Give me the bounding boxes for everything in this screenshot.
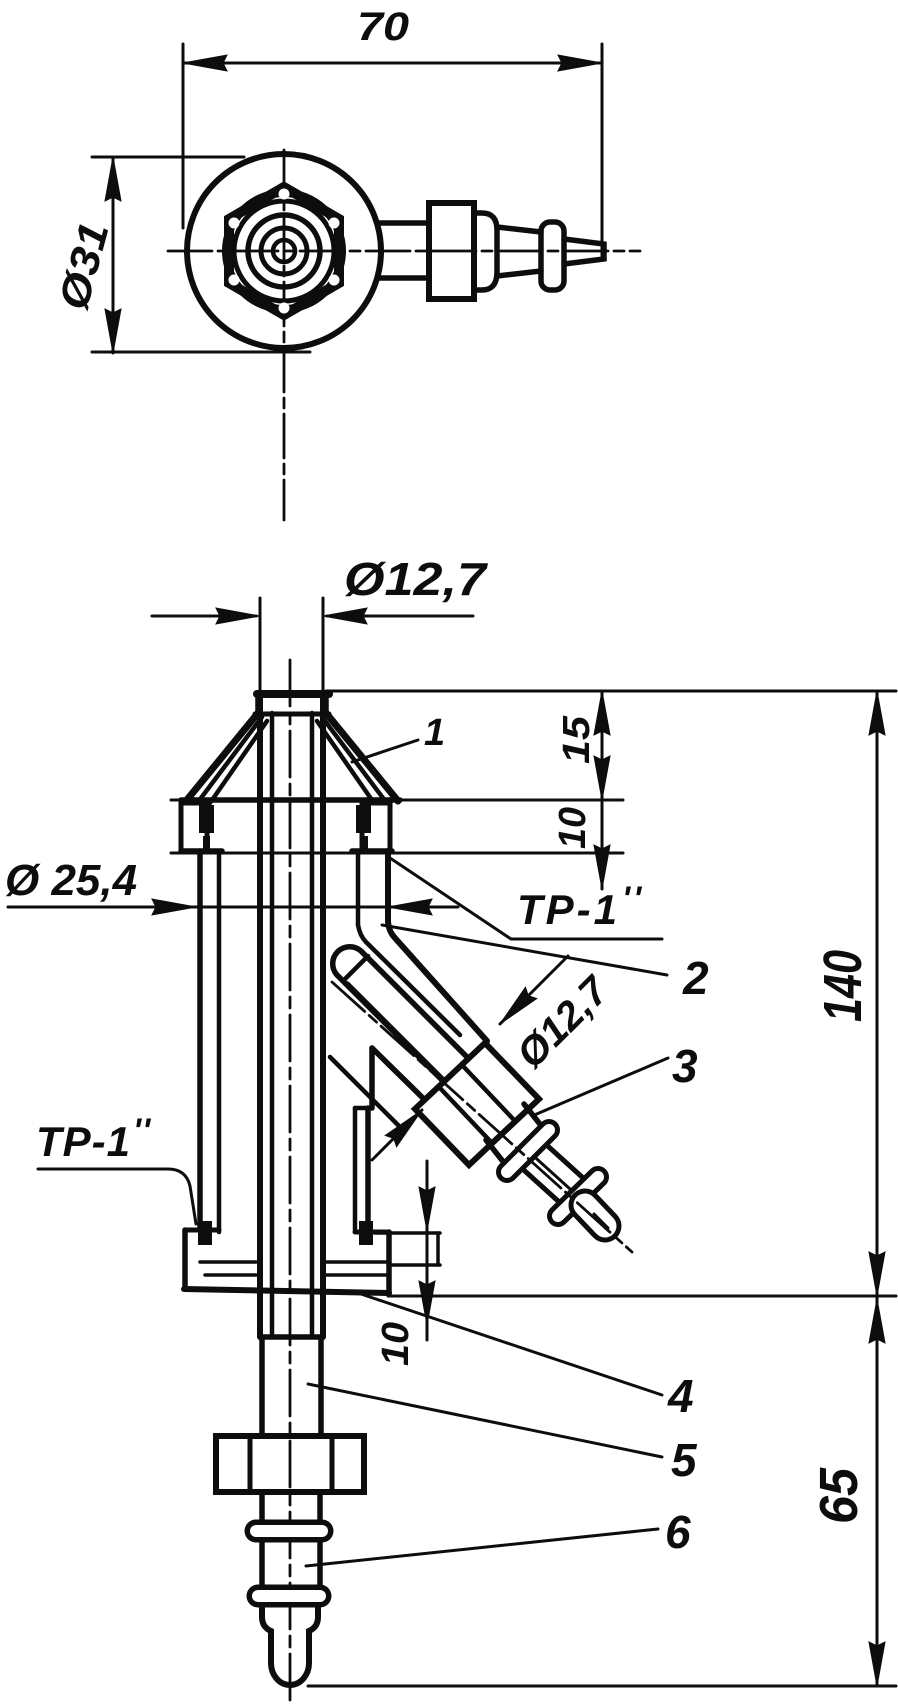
- extension long line y1296: [388, 1295, 896, 1298]
- svg-text:Ø12,7: Ø12,7: [344, 553, 489, 605]
- svg-text:1: 1: [424, 712, 445, 754]
- cone outer left: [186, 713, 258, 801]
- branch rib 1: [507, 1130, 549, 1172]
- side fitting stem: [378, 220, 429, 226]
- branch inner pipe capsule: [333, 947, 486, 1100]
- body outer wall right lower: [365, 1108, 371, 1232]
- corner notches: [229, 189, 340, 314]
- svg-text:10: 10: [552, 807, 594, 849]
- dimension D31 line: [112, 157, 115, 353]
- step right vertical: [436, 1233, 440, 1265]
- branch shaft mid line: [528, 1151, 580, 1198]
- rib 2 bottom: [258, 1585, 320, 1608]
- thread mark left top: [200, 806, 213, 832]
- dimension D12,7 line right: [327, 615, 473, 618]
- svg-text:15: 15: [556, 715, 598, 764]
- branch pipe inner line: [348, 983, 450, 1085]
- bottom flange top line right: [355, 1230, 389, 1235]
- extension line y853: [171, 852, 623, 855]
- branch outer wall upper: [388, 922, 487, 1041]
- label 5 leader: [308, 1384, 662, 1457]
- bottom tip: [262, 1608, 318, 1685]
- branch bore wall upper: [358, 925, 460, 1035]
- branch dim arrow lower: [372, 1110, 422, 1160]
- thread mark right top: [357, 806, 370, 832]
- bottom extension line: [308, 1685, 896, 1688]
- side fitting nut: [429, 203, 474, 299]
- shaft between ribs: [259, 1543, 265, 1588]
- bottom flange inner line 1275: [205, 1273, 256, 1277]
- branch shaft: [540, 1139, 592, 1186]
- cone outer right: [326, 713, 398, 801]
- top view vertical centerline: [283, 150, 286, 520]
- bottom flange right outer: [386, 1232, 392, 1294]
- flange bottom thick right: [352, 848, 392, 854]
- branch bore wall lower: [330, 1057, 402, 1129]
- dimension 65 line: [876, 1296, 879, 1686]
- inner circle 36: [248, 215, 320, 287]
- body inner wall left: [217, 851, 222, 1232]
- svg-text:2: 2: [682, 952, 709, 1004]
- branch nut facet lines: [462, 1065, 515, 1121]
- top view outer circle: [187, 154, 381, 348]
- side fitting taper: [497, 227, 541, 232]
- svg-text:70: 70: [357, 5, 409, 49]
- dimension D25,4 line: [8, 906, 458, 909]
- body inner wall right upper: [356, 851, 361, 925]
- dimension 15-10 line: [601, 691, 604, 889]
- extension line y1233: [375, 1231, 440, 1235]
- hex inscribed circle: [226, 193, 342, 309]
- hex nut outline: [229, 187, 339, 315]
- hex nut bottom: [216, 1436, 364, 1492]
- hex nut facet lines: [248, 1436, 253, 1492]
- body outer wall right upper: [385, 851, 391, 922]
- label 4 leader: [358, 1293, 662, 1395]
- extension line y1265: [389, 1263, 440, 1267]
- pipe bore walls: [270, 713, 275, 1337]
- dimension D12,7 line left: [152, 615, 256, 618]
- extension line top of D31: [92, 156, 244, 159]
- branch tip capsule: [585, 1205, 605, 1226]
- washer circle: [234, 201, 334, 301]
- cap top: [257, 690, 329, 698]
- extension line y800: [171, 799, 623, 802]
- svg-text:3: 3: [672, 1040, 698, 1092]
- dimension 140 line: [876, 691, 879, 1296]
- branch lower outer wall: [372, 1048, 428, 1103]
- branch nut: [415, 1043, 539, 1165]
- bottom flange bottom: [184, 1289, 389, 1293]
- branch dim arrow upper: [500, 956, 568, 1024]
- cone mid right: [322, 717, 386, 802]
- dimension 10 bottom line: [426, 1161, 429, 1340]
- extension line right of 70: [601, 44, 604, 258]
- body outer wall left: [197, 851, 203, 1230]
- branch tip inner line: [594, 1214, 608, 1228]
- branch neck: [524, 1104, 547, 1133]
- rib 1 bottom: [256, 1520, 322, 1543]
- label TP-1 upper leader: [390, 858, 662, 939]
- bottom flange top line left: [185, 1228, 219, 1233]
- label 6 leader: [306, 1529, 658, 1566]
- label 2 leader: [382, 925, 667, 975]
- side fitting collar: [541, 222, 564, 290]
- label TP-1 lower leader: [38, 1169, 196, 1224]
- flange bottom thick left: [181, 848, 222, 854]
- thread mark bottom right: [360, 1222, 372, 1244]
- main vertical centerline: [289, 660, 292, 1702]
- svg-text:Ø 25,4: Ø 25,4: [5, 856, 137, 905]
- shaft below nut: [259, 1492, 265, 1522]
- svg-text:140: 140: [813, 950, 873, 1022]
- body inner wall right lower: [353, 1108, 358, 1230]
- cone inner right: [317, 721, 374, 803]
- extension lines of D12,7: [259, 598, 262, 690]
- top view horizontal centerline: [168, 250, 640, 253]
- pipe outer walls: [257, 696, 263, 1337]
- bottom flange inner line 1262: [200, 1260, 256, 1264]
- label 1 leader: [352, 740, 418, 762]
- side fitting shoulder: [474, 213, 497, 290]
- top extension line y691: [326, 690, 896, 693]
- inner circle 23: [261, 228, 307, 274]
- svg-text:5: 5: [671, 1434, 698, 1486]
- extension line left of 70: [182, 44, 185, 228]
- cone mid left: [198, 717, 262, 802]
- extension line bottom of D31: [92, 351, 310, 354]
- step at pipe end: [262, 1334, 321, 1340]
- flange lip left: [181, 803, 207, 851]
- label 3 leader: [532, 1058, 668, 1116]
- svg-text:65: 65: [809, 1467, 869, 1524]
- branch lower vertical: [369, 1048, 375, 1108]
- flange lip right: [362, 803, 390, 851]
- svg-text:6: 6: [665, 1506, 691, 1558]
- lower shaft walls: [259, 1337, 265, 1436]
- thread mark bottom left: [199, 1222, 211, 1244]
- branch pipe cap edge tick: [344, 956, 368, 980]
- side fitting tip: [564, 239, 604, 264]
- dimension 70 line: [183, 62, 602, 65]
- bottom flange left outer: [182, 1230, 188, 1288]
- inner circle 11: [273, 240, 295, 262]
- cone inner left: [210, 721, 267, 803]
- branch rib 2: [558, 1177, 598, 1216]
- svg-text:10: 10: [375, 1322, 417, 1366]
- branch centerline: [332, 982, 632, 1252]
- svg-text:4: 4: [667, 1370, 694, 1422]
- flange top thick: [181, 797, 400, 803]
